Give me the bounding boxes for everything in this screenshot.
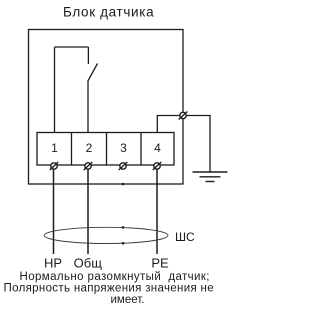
node dot on cable bottom curve — [122, 242, 125, 245]
node dot on cable top curve — [122, 226, 125, 229]
wire: from PE junction right to earth — [183, 116, 210, 173]
svg-text:3: 3 — [120, 141, 127, 155]
wire Общ: terminal 2 down through cable — [87, 169, 89, 254]
terminal 1 screw — [50, 162, 59, 170]
svg-text:Блок датчика: Блок датчика — [63, 5, 154, 20]
svg-text:Общ: Общ — [74, 256, 103, 271]
svg-text:2: 2 — [86, 141, 93, 155]
terminal block divider 3|4 — [140, 133, 142, 166]
terminal 4 screw — [153, 162, 162, 170]
svg-text:НР: НР — [44, 256, 62, 271]
wire: switch upper stub — [87, 47, 89, 64]
ground symbol (earth) — [193, 172, 228, 182]
wire НР: terminal 1 down through cable — [53, 169, 55, 254]
wire: top horizontal between terminal-1 wire and switch — [55, 46, 89, 48]
terminal 2 screw — [84, 162, 93, 170]
svg-text:РЕ: РЕ — [151, 256, 169, 271]
terminal block divider 2|3 — [106, 133, 108, 166]
terminal block XT — [37, 133, 174, 166]
switch SB blade (normally-open contact) — [88, 64, 98, 82]
wire: switch lower stub to terminal 2 — [87, 81, 89, 132]
svg-text:1: 1 — [51, 141, 58, 155]
junction dot on enclosure bottom under terminal 3 — [122, 183, 125, 186]
svg-text:Нормально разомкнутый датчик;: Нормально разомкнутый датчик; — [20, 271, 210, 283]
enclosure box (sensor block outline) — [29, 30, 184, 185]
terminal block divider 1|2 — [71, 133, 73, 166]
PE terminal circle on enclosure (chassis bond) — [179, 112, 188, 120]
cable loop ШС (lens/ellipse) — [44, 227, 168, 243]
wire: from PE junction left then down to terminal 4 — [157, 116, 183, 133]
svg-text:Полярность напряжения значения: Полярность напряжения значения не — [4, 283, 214, 295]
wire РЕ: terminal 4 down through cable — [156, 169, 158, 254]
wire: left vertical from switch top-left to terminal 1 — [54, 47, 56, 133]
terminal 3 screw — [119, 162, 128, 170]
svg-text:ШС: ШС — [175, 230, 195, 244]
svg-text:4: 4 — [154, 141, 161, 155]
svg-text:имеет.: имеет. — [111, 294, 145, 306]
